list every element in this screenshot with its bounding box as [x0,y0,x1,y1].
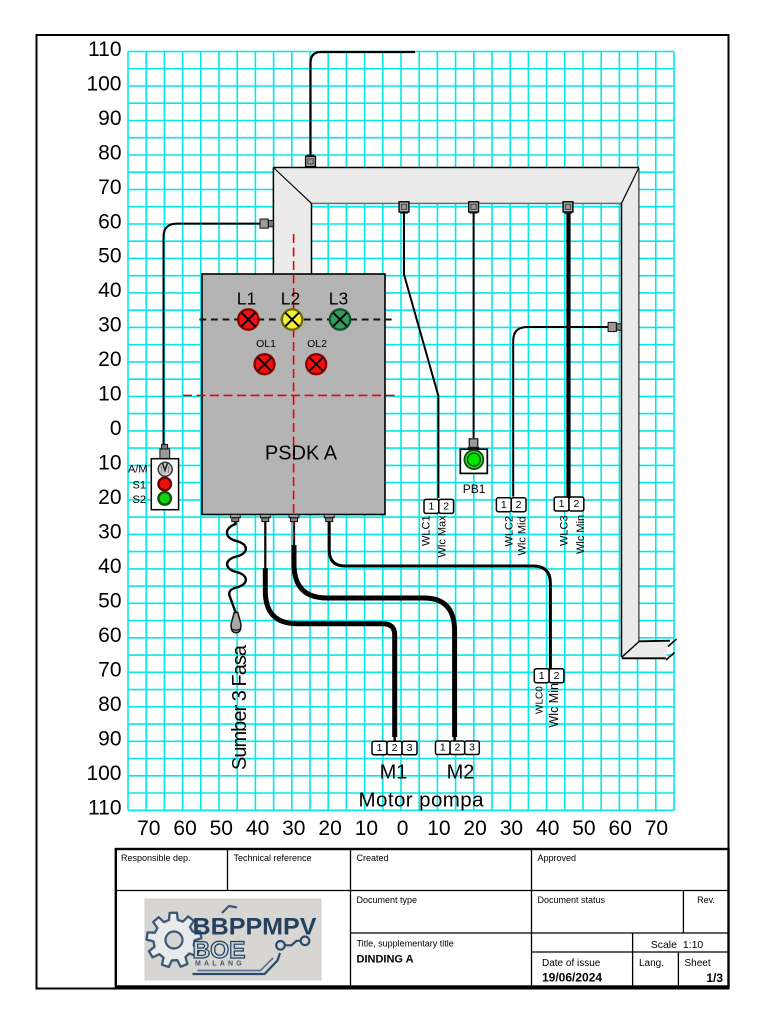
svg-text:PSDK A: PSDK A [265,443,338,465]
svg-text:M2: M2 [447,762,475,784]
svg-text:20: 20 [318,817,341,840]
svg-text:30: 30 [500,817,523,840]
svg-text:110: 110 [88,38,121,61]
svg-text:A/M: A/M [128,464,148,476]
svg-text:Motor pompa: Motor pompa [359,789,485,812]
svg-text:Wlc Min: Wlc Min [575,515,587,554]
svg-text:40: 40 [98,555,121,578]
svg-text:Approved: Approved [538,853,577,863]
svg-text:WLC2: WLC2 [503,516,515,547]
svg-text:30: 30 [98,521,121,544]
svg-text:10: 10 [355,817,378,840]
svg-text:2: 2 [392,742,398,754]
svg-text:40: 40 [98,279,121,302]
svg-text:1: 1 [377,742,383,754]
svg-text:2: 2 [573,498,579,510]
svg-text:S1: S1 [133,480,146,492]
svg-text:1/3: 1/3 [706,971,723,985]
svg-text:90: 90 [98,107,121,130]
svg-text:20: 20 [98,486,121,509]
svg-text:Rev.: Rev. [697,895,715,905]
svg-text:1: 1 [428,501,434,513]
svg-text:90: 90 [98,728,121,751]
svg-text:10: 10 [98,383,121,406]
svg-text:Scale 1:10: Scale 1:10 [651,939,704,951]
svg-text:10: 10 [98,452,121,475]
svg-text:Created: Created [357,853,389,863]
svg-text:30: 30 [282,817,305,840]
svg-text:2: 2 [443,501,449,513]
svg-text:60: 60 [609,817,632,840]
svg-text:50: 50 [572,817,595,840]
svg-text:Lang.: Lang. [639,958,664,969]
svg-text:60: 60 [173,817,196,840]
svg-text:40: 40 [536,817,559,840]
svg-text:Responsible dep.: Responsible dep. [121,853,191,863]
svg-text:20: 20 [98,348,121,371]
svg-text:0: 0 [397,817,409,840]
svg-text:1: 1 [501,499,507,511]
svg-text:70: 70 [98,176,121,199]
svg-text:3: 3 [407,742,413,754]
svg-text:2: 2 [516,499,522,511]
svg-text:19/06/2024: 19/06/2024 [542,971,602,985]
svg-text:Wlc Mid: Wlc Mid [517,516,529,555]
svg-text:70: 70 [645,817,668,840]
svg-text:Sheet: Sheet [685,958,711,969]
svg-text:WLC1: WLC1 [421,515,433,546]
svg-text:Document type: Document type [357,895,418,905]
svg-text:10: 10 [427,817,450,840]
svg-text:Title, supplementary title: Title, supplementary title [357,939,454,949]
svg-text:60: 60 [98,624,121,647]
svg-text:MALANG: MALANG [195,961,245,968]
svg-text:2: 2 [454,742,460,754]
svg-text:50: 50 [98,245,121,268]
svg-text:30: 30 [98,314,121,337]
svg-text:70: 70 [137,817,160,840]
svg-text:L3: L3 [329,289,348,309]
svg-text:100: 100 [86,72,121,95]
svg-text:100: 100 [86,762,121,785]
svg-text:70: 70 [98,659,121,682]
svg-text:60: 60 [98,210,121,233]
svg-text:80: 80 [98,693,121,716]
svg-text:80: 80 [98,141,121,164]
svg-text:Sumber 3 Fasa: Sumber 3 Fasa [229,644,251,770]
svg-text:40: 40 [246,817,269,840]
svg-text:0: 0 [110,417,122,440]
svg-text:50: 50 [98,590,121,613]
svg-text:WLC0: WLC0 [535,686,546,714]
svg-text:WLC3: WLC3 [559,515,571,546]
svg-text:Technical reference: Technical reference [234,853,312,863]
svg-text:PB1: PB1 [463,482,486,496]
svg-text:110: 110 [88,797,121,820]
svg-text:Wlc Min: Wlc Min [547,683,561,727]
svg-text:Wlc Max: Wlc Max [437,515,449,558]
svg-text:1: 1 [440,742,446,754]
svg-text:OL1: OL1 [256,338,276,350]
svg-text:1: 1 [539,670,545,682]
svg-text:L2: L2 [281,289,300,309]
svg-text:1: 1 [559,498,565,510]
svg-text:Document status: Document status [538,895,606,905]
svg-text:Date of issue: Date of issue [542,958,601,969]
svg-text:20: 20 [463,817,486,840]
svg-text:M1: M1 [380,762,408,784]
svg-text:OL2: OL2 [307,338,327,350]
svg-text:3: 3 [469,742,475,754]
svg-text:DINDING A: DINDING A [357,954,414,966]
svg-text:50: 50 [210,817,233,840]
svg-text:S2: S2 [133,494,146,506]
svg-text:L1: L1 [237,289,256,309]
svg-text:2: 2 [554,670,560,682]
